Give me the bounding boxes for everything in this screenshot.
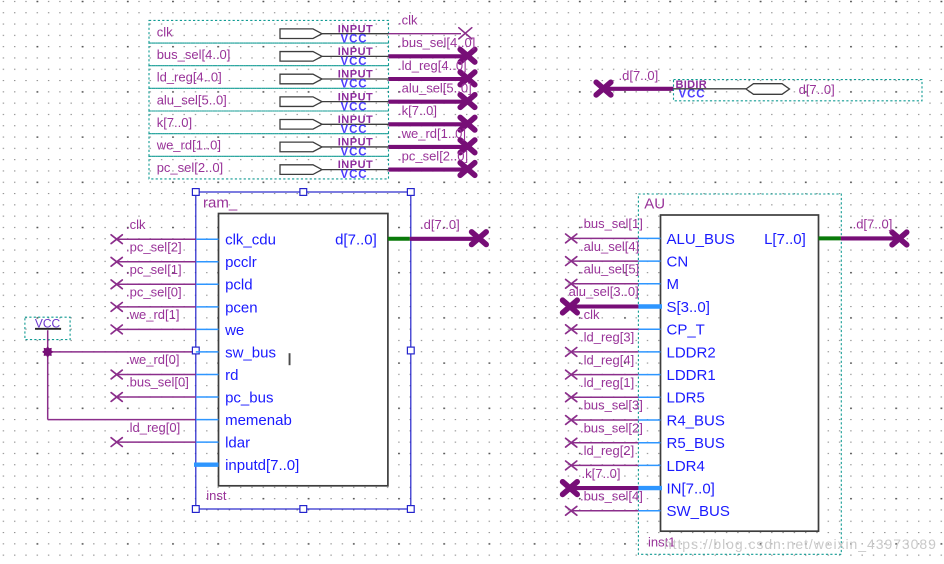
svg-text:pc_bus: pc_bus <box>225 389 273 406</box>
port pc_bus <box>196 389 274 406</box>
svg-text:.bus_sel[3]: .bus_sel[3] <box>580 398 643 413</box>
svg-text:.we_rd[0]: .we_rd[0] <box>126 352 179 367</box>
svg-text:ld_reg[4..0]: ld_reg[4..0] <box>157 70 222 85</box>
wire net ld_reg[0] to ram <box>111 420 196 447</box>
svg-text:ALU_BUS: ALU_BUS <box>667 231 735 248</box>
wire net alu_sel[5] to AU <box>566 262 640 289</box>
svg-text:.pc_sel[1]: .pc_sel[1] <box>126 262 182 277</box>
svg-text:.bus_sel[0]: .bus_sel[0] <box>126 375 189 390</box>
wire net k[7..0] <box>389 103 475 130</box>
svg-text:https://blog.csdn.net/weixin_4: https://blog.csdn.net/weixin_43973089 <box>664 536 936 552</box>
svg-text:.clk: .clk <box>580 307 600 322</box>
power symbol VCC <box>25 317 70 340</box>
svg-text:VCC: VCC <box>679 89 706 101</box>
port CP_T <box>638 322 704 339</box>
svg-text:.pc_sel[2]: .pc_sel[2] <box>126 240 182 255</box>
svg-text:clk_cdu: clk_cdu <box>225 232 276 249</box>
input pin bus_sel[4..0] <box>149 43 389 68</box>
svg-text:clk: clk <box>157 24 173 39</box>
svg-text:R4_BUS: R4_BUS <box>667 412 725 429</box>
port ldar <box>196 435 250 452</box>
svg-text:bus_sel[4..0]: bus_sel[4..0] <box>157 47 231 62</box>
instance selection box (ram_) <box>192 189 414 513</box>
svg-text:.alu_sel[5..0]: .alu_sel[5..0] <box>398 80 472 95</box>
svg-text:.ld_reg[1]: .ld_reg[1] <box>580 375 634 390</box>
instance name inst1 <box>648 535 675 550</box>
port S[3..0] <box>638 299 709 316</box>
svg-text:.clk: .clk <box>126 217 146 232</box>
svg-text:.pc_sel[2..0]: .pc_sel[2..0] <box>398 148 468 163</box>
input pin k[7..0] <box>149 111 389 136</box>
svg-text:.bus_sel[4]: .bus_sel[4] <box>580 489 643 504</box>
port LDR4 <box>638 458 704 475</box>
port CN <box>638 254 688 271</box>
svg-text:.clk: .clk <box>398 13 418 28</box>
svg-text:LDR5: LDR5 <box>667 390 705 407</box>
svg-text:LDDR1: LDDR1 <box>667 367 716 384</box>
instance selection box (AU) <box>638 194 841 554</box>
port R4_BUS <box>638 412 724 429</box>
symbol name AU <box>644 195 665 212</box>
svg-text:pcclr: pcclr <box>225 254 257 271</box>
wire VCC to memenab <box>48 419 196 421</box>
wire net alu_sel[3..0] to AU <box>563 284 639 313</box>
input pin we_rd[1..0] <box>149 134 389 159</box>
svg-text:.k[7..0]: .k[7..0] <box>398 103 437 118</box>
wire net ld_reg[3] to AU <box>566 330 639 357</box>
svg-text:we_rd[1..0]: we_rd[1..0] <box>156 138 221 153</box>
svg-text:d[7..0]: d[7..0] <box>799 82 835 97</box>
svg-text:.ld_reg[3]: .ld_reg[3] <box>580 330 634 345</box>
input pin ld_reg[4..0] <box>149 66 389 91</box>
wire net clk to AU <box>566 307 639 334</box>
svg-text:sw_bus: sw_bus <box>225 344 276 361</box>
port M <box>638 276 679 293</box>
wire net bus_sel[1] to AU <box>566 216 643 243</box>
svg-text:inst: inst <box>206 488 227 503</box>
svg-text:LDDR2: LDDR2 <box>667 344 716 361</box>
port pcclr <box>196 254 257 271</box>
wire net d[7..0] from AU output <box>841 216 907 245</box>
svg-text:alu_sel[5..0]: alu_sel[5..0] <box>157 92 227 107</box>
wire net clk <box>389 13 472 39</box>
input pin clk <box>149 20 389 45</box>
port LDR5 <box>638 390 704 407</box>
svg-text:k[7..0]: k[7..0] <box>157 115 192 130</box>
svg-text:M: M <box>667 276 680 293</box>
port we <box>196 322 244 339</box>
junction (VCC node) <box>42 346 53 357</box>
wire net ld_reg[4] to AU <box>566 352 639 379</box>
svg-text:ldar: ldar <box>225 435 250 452</box>
wire net bus_sel[2] to AU <box>566 420 643 447</box>
wire net ld_reg[1] to AU <box>566 375 639 402</box>
svg-text:SW_BUS: SW_BUS <box>667 503 730 520</box>
port pcen <box>196 299 258 316</box>
svg-text:LDR4: LDR4 <box>667 458 705 475</box>
wire net pc_sel[0] to ram <box>111 285 196 312</box>
svg-text:.k[7..0]: .k[7..0] <box>582 466 621 481</box>
svg-text:.bus_sel[4..0]: .bus_sel[4..0] <box>398 35 475 50</box>
port clk_cdu <box>196 232 276 249</box>
text cursor artifact <box>289 353 291 365</box>
svg-text:.pc_sel[0]: .pc_sel[0] <box>126 285 182 300</box>
wire net bus_sel[0] to ram <box>111 375 196 402</box>
watermark <box>664 536 936 552</box>
port R5_BUS <box>638 435 724 452</box>
input pin pc_sel[2..0] <box>149 156 389 181</box>
wire net we_rd[1..0] <box>389 126 475 153</box>
svg-text:S[3..0]: S[3..0] <box>667 299 710 316</box>
wire net bus_sel[4] to AU <box>566 489 643 516</box>
svg-text:we: we <box>224 322 244 339</box>
block symbol AU (inst1) <box>661 215 819 531</box>
svg-text:.bus_sel[1]: .bus_sel[1] <box>580 216 643 231</box>
port LDDR1 <box>638 367 715 384</box>
port memenab <box>196 412 292 429</box>
input pin alu_sel[5..0] <box>149 88 389 113</box>
wire net pc_sel[2..0] <box>389 148 475 175</box>
svg-text:CN: CN <box>667 254 689 271</box>
svg-text:.ld_reg[4]: .ld_reg[4] <box>580 352 634 367</box>
port inputd[7..0] <box>194 457 299 474</box>
wire net d[7..0] (bidir side) <box>596 68 673 95</box>
bidir pin d[7..0] <box>674 79 923 101</box>
block symbol ram_ (U inst) <box>219 214 388 486</box>
wire net d[7..0] from ram output <box>410 217 486 244</box>
svg-text:.d[7..0]: .d[7..0] <box>619 68 659 83</box>
port ALU_BUS <box>638 231 734 248</box>
svg-text:memenab: memenab <box>225 412 292 429</box>
port SW_BUS <box>638 503 729 520</box>
wire net alu_sel[5..0] <box>389 80 475 107</box>
svg-text:.alu_sel[4]: .alu_sel[4] <box>580 239 639 254</box>
svg-text:inputd[7..0]: inputd[7..0] <box>225 457 299 474</box>
svg-text:pcen: pcen <box>225 299 258 316</box>
svg-text:.d[7..0]: .d[7..0] <box>420 217 460 232</box>
wire net pc_sel[1] to ram <box>111 262 196 289</box>
svg-text:.ld_reg[4..0]: .ld_reg[4..0] <box>398 58 467 73</box>
svg-text:IN[7..0]: IN[7..0] <box>667 481 715 498</box>
svg-text:VCC: VCC <box>341 169 368 181</box>
svg-text:AU: AU <box>644 195 665 212</box>
wire net k[7..0] to AU <box>563 466 639 495</box>
svg-text:.ld_reg[0]: .ld_reg[0] <box>126 420 180 435</box>
svg-text:L[7..0]: L[7..0] <box>764 231 806 248</box>
wire net ld_reg[4..0] <box>389 58 475 85</box>
port pcld <box>196 277 253 294</box>
wire net bus_sel[3] to AU <box>566 398 643 425</box>
wire net we_rd[1] to ram <box>111 307 196 334</box>
wire net we_rd[0] to ram <box>111 352 196 379</box>
svg-text:.d[7..0]: .d[7..0] <box>853 216 893 231</box>
wire VCC to sw_bus <box>48 330 196 419</box>
port LDDR2 <box>638 344 715 361</box>
svg-text:pc_sel[2..0]: pc_sel[2..0] <box>157 160 224 175</box>
svg-text:CP_T: CP_T <box>667 322 705 339</box>
svg-text:.alu_sel[5]: .alu_sel[5] <box>580 262 639 277</box>
svg-text:alu_sel[3..0]: alu_sel[3..0] <box>569 284 639 299</box>
svg-text:.ld_reg[2]: .ld_reg[2] <box>580 443 634 458</box>
symbol name ram_ <box>203 195 238 212</box>
port rd <box>196 367 239 384</box>
svg-text:ram_: ram_ <box>203 195 238 212</box>
svg-text:.we_rd[1..0]: .we_rd[1..0] <box>398 126 466 141</box>
svg-text:rd: rd <box>225 367 238 384</box>
port IN[7..0] <box>638 481 714 498</box>
port sw_bus <box>196 344 276 361</box>
svg-text:.bus_sel[2]: .bus_sel[2] <box>580 420 643 435</box>
port d[7..0] (output, green stub) <box>335 232 410 249</box>
wire net bus_sel[4..0] <box>389 35 476 62</box>
svg-text:.we_rd[1]: .we_rd[1] <box>126 307 179 322</box>
wire net alu_sel[4] to AU <box>566 239 640 266</box>
svg-text:pcld: pcld <box>225 277 253 294</box>
wire net ld_reg[2] to AU <box>566 443 639 470</box>
port L[7..0] (output, green stub) <box>764 231 841 248</box>
wire net pc_sel[2] to ram <box>111 240 196 267</box>
wire net clk to ram <box>111 217 196 244</box>
svg-text:R5_BUS: R5_BUS <box>667 435 725 452</box>
instance name inst <box>206 488 227 503</box>
svg-text:d[7..0]: d[7..0] <box>335 232 377 249</box>
